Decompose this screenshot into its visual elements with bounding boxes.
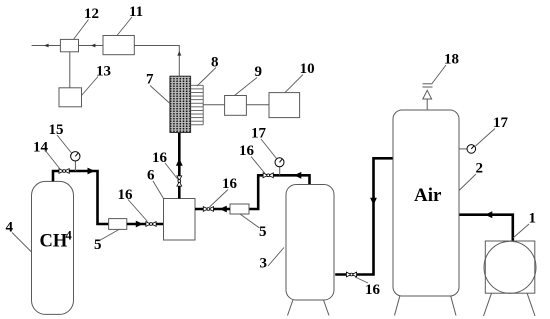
compressor 1: [485, 241, 535, 293]
svg-text:3: 3: [260, 256, 268, 272]
wire: box6 top to reactor (thick): [178, 133, 181, 199]
svg-text:5: 5: [259, 224, 267, 240]
leader: [476, 129, 496, 147]
svg-text:16: 16: [239, 143, 255, 159]
arrow left: [485, 211, 492, 218]
svg-text:14: 14: [33, 140, 49, 156]
leader 1: [513, 224, 529, 238]
valve 16 (vertical): [177, 176, 182, 186]
svg-text:2: 2: [476, 161, 484, 177]
svg-text:16: 16: [222, 176, 238, 192]
filter box 5 (right): [230, 204, 249, 214]
svg-text:4: 4: [66, 229, 73, 243]
air tank 2: [393, 110, 459, 296]
svg-text:13: 13: [96, 64, 111, 80]
svg-text:10: 10: [300, 61, 315, 77]
filter box 5 (left): [109, 219, 127, 230]
wire: box5R to box6 (thick): [195, 208, 230, 211]
svg-text:6: 6: [147, 168, 155, 184]
box 9: [225, 96, 247, 116]
leader: [355, 277, 368, 283]
leader: [128, 200, 148, 222]
leader 5 right: [240, 214, 260, 228]
vent stack 18: [426, 99, 428, 110]
leader 9: [235, 78, 258, 96]
wire: fins to box9 (thin): [203, 104, 225, 106]
valve 16 (vessel3 inlet): [346, 272, 356, 277]
mixer box 6: [164, 199, 196, 241]
leader: [251, 157, 265, 174]
wire: air tank to vessel3 (thick): [335, 158, 393, 274]
air tank legs: [395, 296, 400, 316]
wire: compressor to air tank (thick): [460, 215, 513, 241]
box 13: [59, 88, 82, 107]
wire: box11 to box12 (thin): [79, 45, 104, 47]
leader 6: [153, 181, 164, 199]
leader 15: [57, 135, 72, 153]
box 12: [60, 39, 78, 51]
box 11: [103, 36, 134, 55]
svg-text:18: 18: [444, 52, 459, 68]
arrow up: [176, 159, 183, 166]
leader 4: [12, 233, 32, 253]
reactor 7 (packed bed): [170, 76, 191, 132]
leader 3: [268, 248, 284, 267]
valve 16 (near gauge 17): [263, 173, 273, 178]
thin arrow up below corner: [177, 51, 181, 56]
leader 10: [285, 75, 303, 93]
wire: box12 down to box13 (thin): [69, 52, 71, 88]
svg-text:9: 9: [255, 64, 263, 80]
leader: [210, 190, 229, 208]
arrow left: [220, 206, 227, 213]
gauge 15: [74, 161, 76, 171]
valve 14: [59, 169, 69, 174]
wire: box12 to exit (thin): [32, 45, 61, 47]
valve 16 (right of box6): [203, 207, 213, 212]
CH4 cylinder 4: [32, 181, 74, 314]
leader 12: [74, 20, 89, 40]
svg-text:12: 12: [84, 6, 99, 22]
leader 7: [150, 86, 170, 104]
leader 5 left: [100, 230, 120, 241]
compressor legs: [484, 293, 492, 316]
heater fins 8: [191, 85, 203, 125]
leader: [261, 139, 277, 159]
svg-text:16: 16: [365, 282, 381, 298]
wire: cylinder to box5L (thick pipe): [53, 171, 109, 224]
box 10: [269, 93, 300, 118]
thin arrow left: [91, 44, 96, 48]
leader 2: [459, 174, 476, 191]
leader 18: [432, 65, 446, 84]
svg-text:Air: Air: [414, 185, 442, 206]
wire: reactor top to condenser line (thin): [134, 46, 179, 77]
leader: [165, 163, 178, 180]
valve 16 (left of box 6): [146, 222, 156, 227]
gauge 17 (right, on air tank): [459, 148, 467, 150]
wire: box9 to box10 (thin): [246, 104, 269, 106]
arrow left: [294, 172, 301, 179]
arrow down: [370, 198, 377, 205]
wire: vessel3 top to box5R (thick): [249, 175, 310, 209]
svg-text:7: 7: [146, 72, 154, 88]
leader 13: [82, 77, 99, 96]
leader 8: [197, 68, 216, 87]
svg-text:17: 17: [493, 115, 509, 131]
leader 11: [117, 17, 132, 36]
svg-text:16: 16: [118, 187, 134, 203]
svg-text:5: 5: [94, 237, 102, 253]
svg-text:15: 15: [49, 122, 64, 138]
gauge 17 (center): [279, 167, 281, 175]
vessel 3 legs: [288, 300, 293, 316]
wire: box5L to box6 (thick): [127, 223, 164, 226]
arrow right on pipe: [88, 168, 95, 175]
thin arrow left: [44, 44, 49, 48]
arrow right: [136, 221, 143, 228]
svg-text:17: 17: [251, 126, 267, 142]
svg-text:1: 1: [529, 211, 537, 227]
svg-text:CH: CH: [40, 232, 68, 252]
leader 14: [45, 150, 60, 169]
vessel 3: [286, 185, 334, 301]
